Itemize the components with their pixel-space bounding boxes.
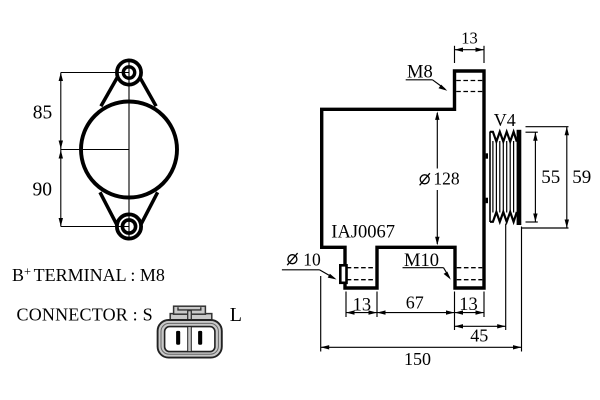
dimension 55: ticks, line, arrows — [526, 131, 538, 133]
dimension 67 — [377, 312, 455, 314]
dimension 59: ticks, line, arrows — [526, 126, 569, 128]
arrowhead down to centerline — [59, 141, 63, 150]
shaft key upper — [486, 153, 488, 158]
svg-text:90: 90 — [33, 179, 53, 200]
connector divider — [188, 327, 192, 352]
svg-text:59: 59 — [572, 167, 591, 188]
connector collar — [170, 314, 212, 321]
dimension text 128 — [420, 173, 430, 185]
svg-text:B+TERMINAL : M8: B+TERMINAL : M8 — [12, 265, 165, 286]
svg-text:13: 13 — [461, 29, 478, 48]
svg-text:13: 13 — [459, 295, 478, 315]
horizontal centerline bottom lug — [61, 226, 129, 228]
svg-text:IAJ0067: IAJ0067 — [331, 223, 395, 243]
top mounting lug outer circle — [117, 60, 141, 84]
svg-text:CONNECTOR : S: CONNECTOR : S — [17, 304, 153, 324]
alternator body outline — [322, 71, 484, 288]
svg-text:55: 55 — [541, 167, 560, 188]
horizontal centerline top lug — [61, 72, 129, 74]
bottom mounting lug hole — [122, 220, 135, 233]
connector pin slot left — [176, 331, 180, 345]
svg-text:67: 67 — [406, 292, 424, 312]
pulley groove walls — [493, 141, 514, 213]
arrowhead up to centerline — [59, 150, 63, 159]
arrowhead up at top lug — [59, 73, 63, 82]
dimension 150 — [321, 346, 522, 348]
dimension line 85/90 vertical — [60, 73, 62, 227]
svg-text:85: 85 — [33, 103, 53, 124]
dimension 45 — [455, 325, 506, 327]
bottom lug edge line right — [139, 192, 157, 227]
top mounting lug hole — [123, 67, 134, 78]
svg-text:150: 150 — [404, 349, 431, 369]
top lug edge line left — [101, 70, 122, 106]
connector latch inner lines — [178, 307, 201, 310]
pulley outer flange — [517, 130, 522, 225]
shaft key lower — [486, 198, 488, 204]
extension line body left — [320, 276, 322, 352]
hidden thread lines right foot M10 — [457, 267, 483, 269]
connector body — [158, 320, 222, 358]
svg-text:128: 128 — [433, 169, 460, 189]
connector latch tab — [174, 306, 206, 314]
bottom lug edge line left — [100, 192, 118, 227]
arrowhead down at bottom lug — [59, 218, 63, 227]
hidden thread lines left foot — [347, 267, 376, 269]
horizontal centerline middle — [61, 149, 129, 151]
svg-text:45: 45 — [470, 326, 488, 346]
hidden thread lines M8 stud — [456, 80, 482, 82]
extension line pulley mid — [505, 224, 507, 331]
dimension 13 right foot — [455, 312, 485, 314]
pulley left face — [489, 132, 491, 223]
svg-text:13: 13 — [353, 296, 372, 316]
connector cavity — [165, 327, 215, 352]
label 10 with leader — [287, 253, 297, 265]
connector body inner contour — [161, 323, 218, 354]
extension line pulley right — [521, 227, 523, 352]
front boss (pilot hole 10) — [340, 265, 346, 283]
vertical centerline — [128, 62, 130, 237]
dimension 128: line and arrows — [436, 113, 438, 169]
dimension 13 left foot — [346, 312, 377, 314]
dimension 13 stud: extension lines — [454, 46, 456, 63]
top lug edge line right — [136, 70, 156, 106]
dimension 13 stud: line and arrows — [455, 49, 485, 51]
svg-text:10: 10 — [303, 249, 321, 269]
bottom dimensions: extension lines — [345, 292, 347, 318]
connector pin slot right — [198, 331, 202, 345]
svg-text:V4: V4 — [494, 110, 516, 130]
pulley top groove zigzag — [490, 132, 517, 142]
connector latch stem — [188, 311, 192, 321]
svg-text:L: L — [230, 304, 242, 326]
bottom mounting lug outer circle — [117, 214, 141, 238]
pulley bottom groove zigzag — [490, 212, 517, 222]
stator body circle — [81, 102, 177, 198]
